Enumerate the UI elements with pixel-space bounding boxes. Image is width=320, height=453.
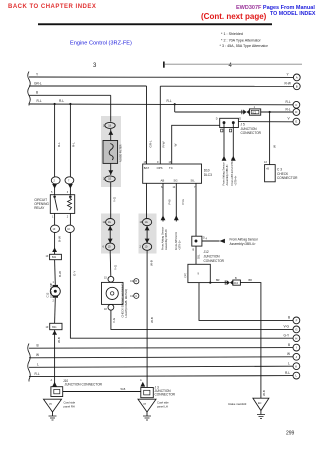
svg-text:R-L: R-L: [37, 99, 42, 103]
svg-text:FUEL PUMP: FUEL PUMP: [49, 282, 53, 297]
svg-text:R-W: R-W: [162, 141, 166, 147]
svg-text:EC: EC: [258, 402, 262, 405]
svg-text:9: 9: [157, 161, 159, 164]
svg-text:B41: B41: [52, 256, 57, 259]
svg-text:Assembly<3B5-8>: Assembly<3B5-8>: [225, 164, 229, 186]
svg-text:18: 18: [104, 308, 107, 311]
svg-text:R-W: R-W: [285, 82, 291, 86]
svg-text:Assembly<3B5-8>: Assembly<3B5-8>: [164, 228, 168, 250]
svg-text:JUNCTION: JUNCTION: [204, 255, 221, 259]
svg-text:GR-L: GR-L: [34, 81, 42, 85]
svg-text:A: A: [140, 379, 142, 382]
svg-text:1F: 1F: [53, 228, 56, 231]
svg-text:299: 299: [286, 431, 295, 437]
svg-text:3: 3: [67, 191, 69, 194]
svg-text:4C4: 4C4: [234, 282, 239, 285]
svg-text:R-L: R-L: [286, 107, 291, 111]
svg-text:D: D: [216, 117, 218, 120]
svg-text:V-G: V-G: [112, 317, 116, 323]
svg-text:panel LH: panel LH: [157, 404, 168, 408]
svg-text:1F: 1F: [46, 255, 49, 258]
svg-text:B: B: [193, 249, 195, 252]
svg-text:AB: AB: [161, 179, 165, 183]
svg-text:(Cont. next page): (Cont. next page): [201, 12, 267, 21]
svg-text:V: V: [288, 117, 291, 121]
svg-text:BR: BR: [216, 279, 220, 282]
svg-text:Y-G: Y-G: [113, 196, 117, 202]
svg-text:SIL: SIL: [197, 254, 201, 259]
svg-text:BACK TO CHAPTER INDEX: BACK TO CHAPTER INDEX: [8, 4, 96, 10]
svg-text:L: L: [37, 363, 39, 367]
svg-text:CONNECTOR: CONNECTOR: [277, 176, 298, 180]
svg-text:J12: J12: [204, 250, 209, 254]
svg-text:C: C: [135, 295, 137, 298]
svg-text:C11: C11: [130, 294, 135, 298]
svg-text:R-L: R-L: [59, 99, 64, 103]
svg-text:R-L: R-L: [35, 372, 40, 376]
svg-text:1: 1: [53, 281, 55, 284]
svg-text:D: D: [239, 117, 241, 120]
svg-text:B: B: [135, 280, 137, 283]
svg-text:A: A: [296, 76, 298, 80]
svg-text:V-G: V-G: [284, 325, 290, 329]
svg-text:1D: 1D: [145, 246, 148, 249]
svg-text:A: A: [51, 379, 53, 382]
svg-text:NOISE FILTER: NOISE FILTER: [119, 144, 123, 162]
svg-text:F: F: [296, 319, 298, 323]
svg-text:IH: IH: [144, 403, 147, 406]
svg-text:1E: 1E: [108, 178, 111, 181]
svg-text:B: B: [37, 343, 39, 347]
svg-text:BR: BR: [249, 279, 253, 282]
svg-text:D: D: [295, 110, 297, 114]
svg-text:13: 13: [264, 161, 267, 164]
svg-text:CONNECTOR: CONNECTOR: [204, 259, 225, 263]
svg-text:L: L: [295, 374, 297, 378]
svg-text:W: W: [36, 353, 39, 357]
svg-text:RELAY: RELAY: [34, 206, 45, 210]
svg-text:G-Y: G-Y: [73, 271, 77, 276]
svg-text:<3T9-5>: <3T9-5>: [177, 240, 181, 250]
svg-text:2: 2: [54, 179, 56, 182]
svg-text:Y: Y: [36, 72, 39, 76]
svg-text:C: C: [295, 103, 297, 107]
svg-text:SG: SG: [174, 179, 178, 183]
svg-text:SIL: SIL: [191, 179, 196, 183]
svg-text:R-L: R-L: [285, 371, 290, 375]
svg-text:K: K: [295, 364, 297, 368]
svg-text:BAT: BAT: [144, 166, 150, 170]
svg-text:<3T9-4>: <3T9-4>: [234, 175, 238, 185]
svg-text:IC2: IC2: [252, 111, 256, 114]
svg-text:G: G: [295, 328, 298, 332]
svg-text:B-W: B-W: [58, 271, 62, 277]
svg-text:* 3 : 45A, 55A Type Alternator: * 3 : 45A, 55A Type Alternator: [220, 44, 269, 48]
svg-text:P-B: P-B: [168, 199, 172, 204]
svg-text:1: 1: [254, 106, 256, 109]
svg-text:1D: 1D: [108, 246, 111, 249]
svg-text:1B: 1B: [108, 124, 111, 127]
svg-text:3: 3: [93, 63, 97, 69]
svg-text:L: L: [288, 361, 290, 365]
svg-text:B41: B41: [52, 326, 57, 329]
svg-text:2: 2: [67, 216, 69, 219]
svg-text:1G: 1G: [108, 221, 111, 224]
svg-text:B-W: B-W: [58, 236, 62, 242]
svg-text:5: 5: [51, 191, 53, 194]
svg-text:R-L: R-L: [57, 142, 61, 147]
svg-text:W-B: W-B: [121, 388, 126, 391]
svg-text:B: B: [36, 91, 38, 95]
svg-text:Cowl side: Cowl side: [64, 401, 76, 405]
svg-text:W: W: [174, 144, 178, 147]
svg-text:B: B: [296, 84, 298, 88]
svg-text:7: 7: [68, 179, 70, 182]
svg-text:W-B: W-B: [150, 260, 154, 266]
svg-text:R-L: R-L: [72, 142, 76, 147]
svg-text:1: 1: [52, 216, 54, 219]
svg-text:W-B: W-B: [262, 390, 266, 396]
svg-text:B: B: [288, 343, 290, 347]
svg-text:I: I: [296, 346, 297, 350]
svg-text:(1J): (1J): [184, 273, 187, 277]
svg-text:B: B: [235, 277, 237, 280]
svg-text:W: W: [287, 352, 290, 356]
svg-text:9: 9: [198, 273, 200, 276]
svg-text:W-B: W-B: [57, 337, 61, 343]
svg-text:R-L: R-L: [167, 99, 172, 103]
svg-text:1G: 1G: [145, 221, 148, 224]
svg-text:2: 2: [53, 300, 55, 303]
svg-text:TO MODEL INDEX: TO MODEL INDEX: [270, 11, 316, 17]
svg-text:Engine Control (3RZ-FE): Engine Control (3RZ-FE): [70, 41, 132, 47]
svg-text:Y-G: Y-G: [114, 264, 118, 270]
svg-text:E: E: [295, 120, 297, 124]
svg-text:14: 14: [173, 186, 176, 189]
svg-text:* 1 : Shielded: * 1 : Shielded: [221, 32, 243, 36]
svg-text:4: 4: [206, 238, 208, 241]
svg-text:W: W: [273, 145, 277, 148]
svg-text:OPS: OPS: [157, 166, 163, 170]
svg-text:JUNCTION CONNECTOR: JUNCTION CONNECTOR: [65, 383, 103, 387]
svg-text:B: B: [288, 316, 290, 320]
svg-text:CONNECTOR: CONNECTOR: [241, 131, 262, 135]
svg-text:Cowl side: Cowl side: [157, 401, 169, 405]
svg-text:1F: 1F: [46, 326, 49, 329]
svg-text:H: H: [295, 336, 297, 340]
svg-text:Y: Y: [287, 73, 290, 77]
svg-text:panel RH: panel RH: [64, 404, 75, 408]
svg-text:GR-L: GR-L: [149, 140, 153, 147]
svg-text:CONNECTOR: CONNECTOR: [155, 393, 176, 397]
svg-text:Assembly<3B5-4>: Assembly<3B5-4>: [230, 242, 256, 246]
svg-text:LIGHT(COMB. METER): LIGHT(COMB. METER): [124, 289, 128, 318]
svg-text:+B: +B: [266, 168, 269, 171]
svg-text:15: 15: [104, 276, 107, 279]
svg-text:1F: 1F: [67, 228, 70, 231]
svg-text:W-B: W-B: [150, 317, 154, 323]
svg-text:R-L: R-L: [286, 100, 291, 104]
svg-text:G-Y: G-Y: [284, 333, 291, 337]
svg-text:IH: IH: [49, 403, 52, 406]
svg-text:TC: TC: [169, 166, 173, 170]
svg-text:J: J: [296, 355, 298, 359]
svg-text:DLC3: DLC3: [204, 173, 212, 177]
svg-text:D10: D10: [204, 169, 210, 173]
svg-text:Intake manifold: Intake manifold: [228, 402, 247, 406]
svg-text:P-G: P-G: [181, 199, 185, 205]
svg-text:* 2 : 70A Type Alternator: * 2 : 70A Type Alternator: [221, 39, 261, 43]
